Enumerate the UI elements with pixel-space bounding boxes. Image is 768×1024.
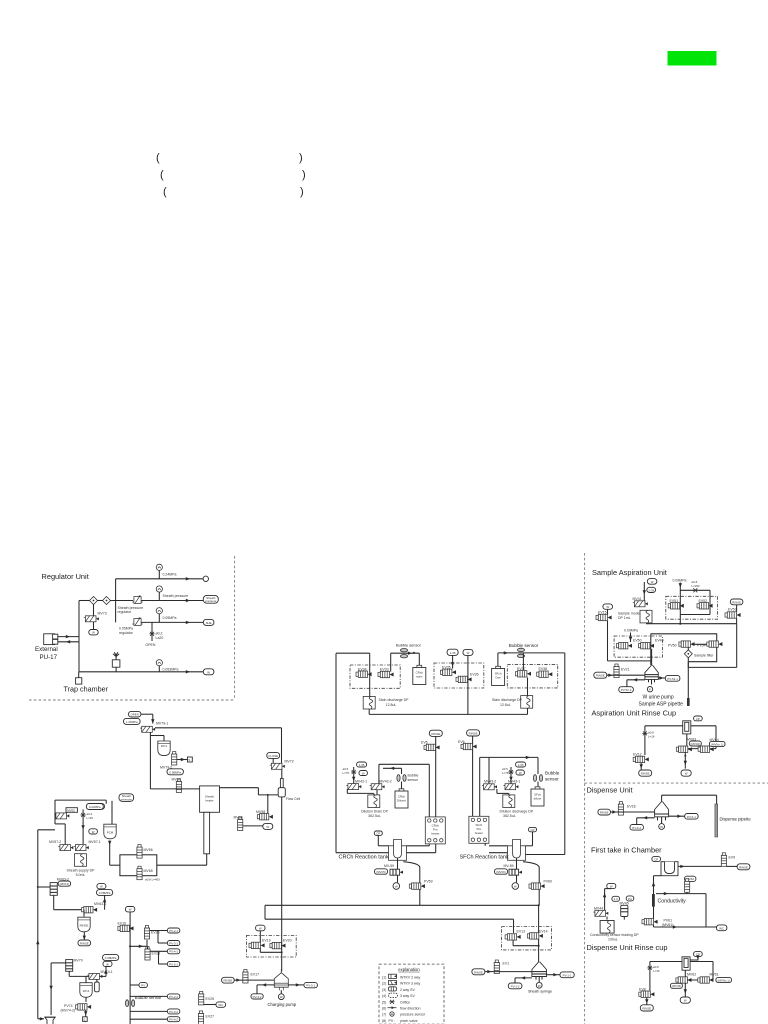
pill RINSE dispense [598, 809, 611, 815]
svg-text:W: W [259, 926, 262, 930]
orifice stem MV55 branch [81, 810, 84, 845]
valve EV18 [618, 802, 623, 816]
svg-text:12.8uL: 12.8uL [386, 703, 397, 707]
svg-text:EV35: EV35 [442, 666, 451, 670]
orifice branch wire [680, 588, 710, 614]
valve MV63-1 [82, 907, 98, 913]
svg-text:MV62: MV62 [687, 973, 696, 977]
svg-text:RINSE: RINSE [80, 941, 89, 945]
svg-text:MV79-1: MV79-1 [156, 722, 168, 726]
svg-text:(2): (2) [382, 982, 386, 986]
svg-text:W: W [610, 884, 613, 888]
svg-text:(1): (1) [382, 975, 386, 979]
svg-text:Dispense pipette: Dispense pipette [720, 817, 752, 822]
svg-text:Sheath pressure: Sheath pressure [118, 606, 144, 610]
wire WC2 to PV74 [85, 997, 87, 1002]
pill PV-4-1 [167, 949, 179, 954]
reaction tank SFCh [508, 840, 526, 861]
legend row 8 pinch valve [382, 1019, 418, 1023]
valve MV73 stem [93, 605, 95, 616]
pill CP asp cup [694, 716, 703, 721]
svg-text:(MV32): (MV32) [691, 742, 701, 746]
svg-text:EV17: EV17 [251, 973, 260, 977]
svg-text:(4): (4) [382, 994, 386, 998]
svg-text:PV61: PV61 [664, 919, 673, 923]
svg-text:MV73: MV73 [98, 612, 107, 616]
pill CP disp cup [690, 952, 702, 960]
svg-text:W: W [684, 999, 687, 1003]
svg-text:EV8: EV8 [639, 988, 646, 992]
valve EV1 [494, 960, 499, 974]
svg-text:W: W [92, 830, 95, 834]
valve MV58 [257, 814, 273, 820]
svg-text:PV-6-1: PV-6-1 [687, 815, 696, 819]
svg-text:PV60: PV60 [544, 880, 553, 884]
regulator 0.05MPa [132, 617, 142, 625]
pill W ev35 [463, 649, 473, 655]
legend row 7 pressure sensor [382, 1012, 426, 1017]
bubble trap cylinder [95, 979, 100, 992]
svg-text:EV50: EV50 [633, 639, 642, 643]
pill W disp cup [680, 997, 690, 1003]
svg-text:EV9: EV9 [729, 856, 736, 860]
pill W mv57 [89, 829, 98, 834]
circle W under pump [278, 990, 284, 999]
wire cup top right run [691, 726, 716, 749]
svg-text:0.08MPa: 0.08MPa [105, 956, 117, 960]
MV42 inner wire [383, 767, 402, 774]
wire riser EV34 [369, 653, 371, 696]
svg-text:EV6: EV6 [458, 740, 465, 744]
svg-text:Sheath pressure: Sheath pressure [163, 594, 189, 598]
dashed divider: regulator unit bottom edge [29, 699, 235, 701]
pill RINSE asp cup [639, 770, 652, 776]
svg-text:1-39: 1-39 [648, 588, 654, 592]
wire MV79-2 to S box [177, 758, 188, 761]
svg-text:EV18: EV18 [627, 804, 636, 808]
svg-text:PV-52-2: PV-52-2 [621, 688, 632, 692]
svg-text:SHE: SHE [206, 621, 212, 625]
svg-text:pinch valve: pinch valve [400, 1019, 418, 1023]
pill W top [125, 907, 134, 912]
svg-text:Bubble sensor: Bubble sensor [509, 643, 539, 648]
funnel dispense pump [649, 802, 669, 824]
svg-text:Bubble sensor: Bubble sensor [396, 643, 422, 648]
bubble sensor SFCh [517, 648, 524, 657]
valve EV27 [198, 1011, 203, 1024]
svg-text:(MVNo.1): (MVNo.1) [718, 978, 730, 982]
svg-text:RINSE: RINSE [596, 674, 605, 678]
valve EV20 [270, 942, 286, 948]
valve MV64 [698, 746, 714, 752]
dashed box EV13 EV14 [502, 927, 552, 950]
green highlight marker top right [668, 51, 717, 66]
orifice branch stem [151, 622, 153, 641]
svg-text:MV55: MV55 [67, 808, 75, 812]
wires EV26 to pills [150, 931, 168, 944]
svg-text:Sample filter: Sample filter [694, 654, 714, 658]
label orifice asp cup [648, 731, 655, 739]
svg-text:EV38: EV38 [539, 667, 548, 671]
svg-text:MV-59: MV-59 [384, 864, 394, 868]
wire check valve to regulator row [111, 600, 134, 602]
valve PV50 [679, 641, 695, 647]
wire pump right to PV-3-1 [288, 983, 304, 986]
svg-text:EV13: EV13 [517, 930, 526, 934]
chamber sheath supply DP [75, 854, 87, 867]
bottom left funnel [45, 1017, 55, 1024]
dashed box EV19 EV20 [246, 936, 296, 958]
pill 0.08MPa mv74 [103, 955, 119, 961]
wire cup2 top left run [650, 962, 682, 991]
MV42 loop outer wire [379, 764, 429, 817]
pressure sensor 0.05MPa [156, 608, 162, 623]
sheath pressure regulator [132, 595, 142, 603]
orifice disp cup [647, 966, 652, 970]
svg-text:MV67: MV67 [172, 778, 181, 782]
orifice mv43 [508, 767, 513, 784]
junction left drop to MV63-2 [37, 886, 50, 888]
wire PV74 outlet [84, 1010, 87, 1016]
pill MV33 [670, 983, 682, 988]
label Sample mode DP 1mL [618, 612, 640, 621]
svg-text:Orifice: Orifice [400, 1001, 410, 1005]
svg-text:PV-2-1: PV-2-1 [169, 929, 178, 933]
pill W charging [256, 925, 265, 931]
svg-text:0.08MPa: 0.08MPa [99, 891, 111, 895]
valve EV51 [668, 603, 684, 609]
wire flowcell drop [281, 797, 283, 972]
svg-text:W: W [280, 995, 283, 999]
svg-text:W: W [606, 605, 609, 609]
orifice ø0.2 La20 [149, 632, 154, 636]
svg-text:OPEN: OPEN [131, 713, 139, 717]
svg-text:SFCh Reaction tank: SFCh Reaction tank [460, 855, 509, 861]
pressure sensor sheath [156, 586, 162, 601]
wire chamber left drop [652, 876, 661, 919]
pill MV32 [689, 741, 701, 746]
svg-text:(MV33): (MV33) [672, 984, 682, 988]
rinse cup vessel 2 [682, 957, 690, 970]
svg-text:CP: CP [376, 832, 380, 836]
svg-text:RINSE: RINSE [474, 970, 483, 974]
wire top row CRCh left [336, 652, 370, 654]
valve EV9 [721, 853, 726, 867]
wire cup2 bottom manifold [677, 970, 713, 980]
wire PV60 riser to EV14 [538, 904, 540, 933]
valve MV79-2 [172, 752, 177, 766]
svg-text:MV44: MV44 [594, 907, 603, 911]
svg-text:Dye: Dye [496, 676, 502, 680]
label orifice ev51 [692, 580, 701, 588]
label orifice disp cup [653, 965, 660, 973]
pill MVNo1 [709, 741, 725, 746]
wire EV15 drop [608, 621, 652, 661]
svg-text:RINSE: RINSE [80, 924, 89, 928]
pill RINSE EV6 [467, 730, 480, 736]
wire EV49 drop to pump [651, 649, 653, 665]
svg-text:sensor: sensor [408, 778, 419, 782]
pill 1-35 mv43 [516, 762, 526, 767]
output row sheath pressure [142, 599, 204, 602]
wire EV8 drain [645, 997, 648, 1004]
valve EV17 [243, 970, 248, 984]
valve EV16 [118, 925, 134, 931]
pill Sheath pressure in [119, 794, 134, 802]
first take chamber vessel [661, 862, 678, 876]
svg-text:PV-6-2: PV-6-2 [632, 826, 641, 830]
svg-text:MV43-2: MV43-2 [484, 780, 496, 784]
svg-text:0.09MPa: 0.09MPa [624, 629, 638, 633]
svg-text:First take in Chamber: First take in Chamber [591, 846, 662, 855]
valve EV52 [697, 603, 713, 609]
dashed divider: dispense unit top edge [585, 782, 768, 784]
conductivity cell bar [652, 894, 655, 907]
svg-text:EV12: EV12 [633, 752, 642, 756]
svg-text:(5): (5) [382, 1001, 386, 1005]
drain manifold long rectangle [265, 905, 539, 919]
S box [188, 757, 193, 762]
valve MV44 [593, 910, 608, 916]
pill 0.22MPa [86, 804, 103, 810]
svg-text:Flow Cell: Flow Cell [286, 797, 301, 801]
svg-text:S: S [188, 758, 190, 762]
label bubble sensor mv43 [545, 771, 560, 782]
svg-text:Sample ASP pipette: Sample ASP pipette [639, 702, 684, 708]
svg-text:MV61: MV61 [710, 973, 719, 977]
svg-text:EV51: EV51 [670, 599, 679, 603]
wire MV79-1 down [150, 732, 164, 789]
svg-text:EV15: EV15 [598, 611, 607, 615]
valve EV21 [614, 664, 619, 678]
wire MV58 branch [267, 795, 269, 813]
wire cup bottom manifold [678, 734, 716, 749]
svg-text:MV42-2: MV42-2 [380, 779, 392, 783]
wire to sheath syringe [538, 939, 540, 962]
svg-text:(7): (7) [382, 1013, 386, 1017]
pill PV-6-2 [630, 825, 643, 831]
svg-text:PV-3-2: PV-3-2 [169, 1010, 178, 1014]
wire pill riser EV36 [467, 655, 469, 714]
pill W mv42 [359, 771, 367, 776]
pill PV-3-2 pump [251, 994, 263, 999]
funnel RINSE chamber [78, 910, 90, 932]
svg-text:L=16: L=16 [653, 969, 660, 973]
pill MVNo1 disp [716, 977, 732, 982]
sample filter diamond [684, 648, 692, 658]
wire sheath run to heater [150, 788, 199, 790]
label Sheath supply DP 5.0mL [66, 869, 95, 878]
chamber WC-2 [80, 976, 92, 997]
svg-text:Dispense Unit Rinse cup: Dispense Unit Rinse cup [587, 943, 668, 952]
svg-text:1.26MPa: 1.26MPa [126, 720, 138, 724]
svg-text:362.5uL: 362.5uL [368, 814, 381, 818]
wire mv74 pill stem [97, 967, 108, 977]
svg-text:MV72: MV72 [285, 760, 294, 764]
wire MV55 loop bottom [55, 824, 65, 848]
valve MV73 [84, 616, 99, 622]
svg-text:PU-17: PU-17 [40, 654, 58, 661]
svg-text:): ) [299, 152, 303, 164]
wire EV12 drain [640, 763, 643, 770]
chamber conductivity sensor leading DP [600, 921, 614, 934]
wire right loop first take [687, 894, 706, 927]
pill W mv43 [516, 770, 524, 775]
svg-text:3 way SV: 3 way SV [400, 994, 415, 998]
wires EV28 to pills [150, 951, 167, 964]
bottle SFch diluent [531, 787, 544, 806]
valve PV60 [529, 883, 545, 889]
valve MV57-1 [74, 845, 89, 851]
svg-text:362.5uL: 362.5uL [503, 814, 516, 818]
svg-text:(MV15): (MV15) [376, 870, 386, 874]
svg-text:Sheath syringe: Sheath syringe [528, 990, 552, 994]
svg-text:(MV61): (MV61) [662, 923, 673, 927]
svg-text:L=75: L=75 [343, 771, 350, 775]
pill CP chamber [652, 857, 661, 862]
valve MV62 first take [685, 879, 690, 893]
svg-text:PV-3-1: PV-3-1 [306, 984, 315, 988]
svg-text:(MV74-2): (MV74-2) [61, 1009, 76, 1013]
wire 0.09 lower riser [629, 633, 632, 643]
reaction tank CRCh [389, 840, 407, 861]
valve EV8 [639, 991, 655, 997]
wire DP to bottom rail [368, 709, 370, 714]
pill RINSE urine [594, 672, 607, 678]
svg-text:Charging pump: Charging pump [268, 1002, 297, 1007]
wire pill to EV35 [451, 655, 454, 668]
svg-text:W: W [100, 885, 103, 889]
valve MV63-2 [50, 883, 57, 896]
check valve 1 [90, 597, 98, 605]
wire MV45 to PV61 [607, 917, 646, 920]
drain pill W flow cell [263, 823, 273, 829]
orifice ø0.2 L=30 [81, 813, 86, 817]
pill OPEN [129, 711, 141, 717]
valve MV61 disp [698, 977, 714, 983]
component MV45 [621, 905, 628, 919]
pill CP CRCh [374, 831, 388, 846]
wire MV42-1 to drain DP [347, 789, 377, 795]
svg-text:MV74-1: MV74-1 [101, 970, 113, 974]
pill W mv41 [647, 579, 657, 585]
label PV74 MV74-2 [61, 1004, 76, 1013]
bubble sensor mv42 [397, 775, 406, 790]
svg-text:0.09MPa: 0.09MPa [673, 579, 687, 583]
wire syringe right to PV-1-1 [547, 973, 561, 976]
orifice asp cup [642, 731, 647, 735]
drain pill W under MV73 [89, 630, 98, 635]
svg-text:EV1: EV1 [503, 962, 510, 966]
svg-text:1-35: 1-35 [518, 763, 524, 767]
svg-text:regulator: regulator [118, 610, 133, 614]
wire dispense right [669, 815, 685, 818]
svg-text:0.05MPa: 0.05MPa [163, 616, 177, 620]
pill 1-39 [647, 587, 656, 592]
flow cell feed riser [281, 728, 283, 763]
svg-text:EV33: EV33 [380, 667, 389, 671]
svg-text:ø0.2: ø0.2 [156, 632, 163, 636]
pill PV-2-1 [167, 928, 179, 933]
svg-text:): ) [300, 186, 304, 198]
svg-text:heater: heater [475, 831, 483, 835]
svg-text:WTKV 3 way: WTKV 3 way [400, 982, 420, 986]
junction manifold branch [129, 945, 147, 948]
svg-text:W: W [129, 908, 132, 912]
svg-text:12.8uL: 12.8uL [500, 703, 511, 707]
svg-text:RINSE: RINSE [732, 600, 741, 604]
trap chamber outlet box [76, 672, 82, 684]
wire heater to tank SFCh [473, 843, 508, 853]
pressure tap circle [99, 804, 105, 810]
chamber dilution drain DP [368, 795, 380, 808]
svg-text:W: W [362, 771, 365, 775]
svg-text:Sample Aspiration Unit: Sample Aspiration Unit [592, 568, 667, 577]
chamber sample mode DP [640, 610, 652, 623]
svg-text:W: W [538, 984, 541, 988]
label stain discharge DP SFCh [492, 698, 523, 707]
valve EV50 [616, 643, 632, 649]
svg-text:W: W [651, 580, 654, 584]
long right riser [564, 653, 566, 855]
wire tank to heater CRCh [407, 844, 436, 853]
pill MV13 [58, 881, 70, 886]
valve loop box MV56/MV65 [120, 855, 157, 876]
pill RINSE EV5 [429, 730, 442, 736]
wire EV25 to pill W [204, 1002, 226, 1007]
valve MV42-2 [370, 784, 385, 790]
pill 0.08MPa mv63 [97, 890, 113, 896]
wire urine pump left drain [627, 678, 645, 687]
pill W ev15 [603, 604, 613, 609]
svg-text:PV-3-1: PV-3-1 [169, 941, 178, 945]
dashed divider: right column left edge [584, 553, 586, 1024]
wire dispense left drain [637, 816, 655, 824]
svg-text:(: ( [160, 169, 164, 181]
valve MV67 [176, 779, 181, 793]
sample ASP pipette bar [687, 698, 690, 706]
svg-text:EV20: EV20 [283, 939, 292, 943]
wire tank SFCh to right riser [526, 854, 565, 856]
label PV61 MV61 [662, 919, 673, 928]
wire urine pump right [658, 676, 665, 679]
valve PV59 [409, 883, 425, 889]
svg-text:Stain discharge DP: Stain discharge DP [492, 698, 523, 702]
svg-text:(: ( [163, 186, 167, 198]
svg-text:MV57-2: MV57-2 [49, 840, 61, 844]
svg-text:MV57-1: MV57-1 [89, 840, 101, 844]
wire PCM to loop [108, 841, 120, 866]
svg-text:(8): (8) [382, 1019, 386, 1023]
svg-text:1-35: 1-35 [450, 651, 456, 655]
pressure sensor 0.24MPa [156, 564, 162, 579]
pill 1.26MPa [124, 718, 141, 724]
pill PV-1-2 [508, 983, 522, 989]
svg-text:PV: PV [141, 984, 145, 988]
svg-text:External: External [35, 646, 58, 653]
svg-text:EV27: EV27 [206, 1015, 215, 1019]
wire mv44 riser [603, 889, 611, 911]
svg-text:WC: WC [719, 926, 724, 930]
riser connecting output rows [115, 579, 117, 623]
svg-text:RINSE: RINSE [641, 772, 650, 776]
svg-text:P: P [649, 688, 651, 692]
solid box PV50 PV54 [651, 634, 737, 668]
wire MV63 drain [684, 752, 687, 768]
svg-text:diluter: diluter [534, 797, 542, 801]
svg-text:Trap chamber: Trap chamber [64, 685, 109, 694]
wire manifold low to EV13 [513, 919, 515, 933]
